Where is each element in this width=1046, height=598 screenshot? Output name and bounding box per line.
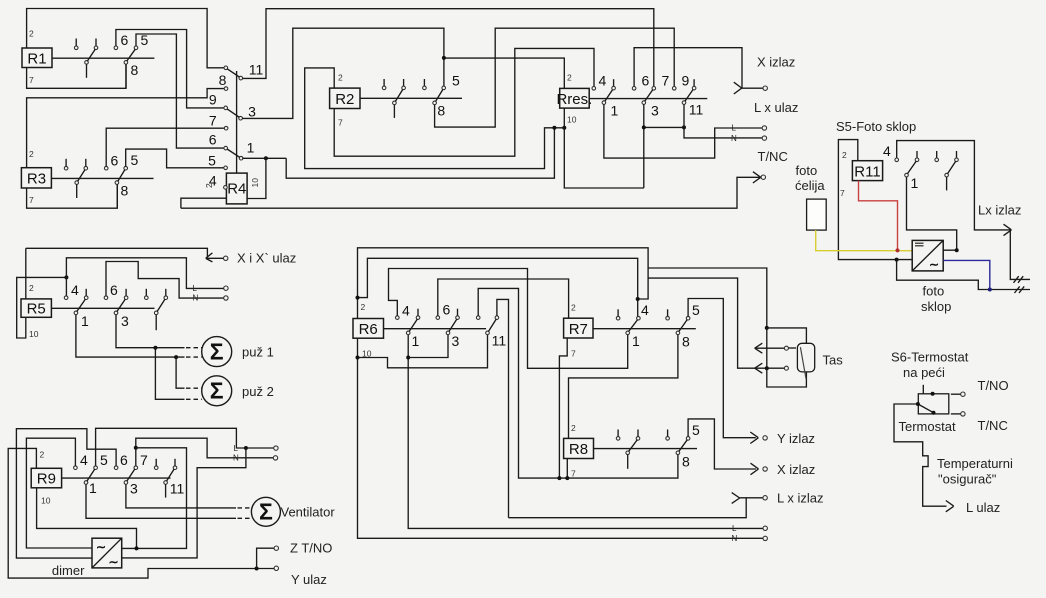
svg-text:3: 3 — [121, 313, 129, 329]
contact terminal Rres 11 tick — [692, 79, 696, 90]
wire termostat feed with temperature fuse to L ulaz — [894, 404, 947, 506]
wire R5 contact 4 to L terminal — [66, 258, 223, 296]
selector terminal 8 — [224, 87, 228, 91]
wire R5 contact rail — [51, 307, 154, 309]
contact pivot R7 1 with blade — [626, 320, 638, 335]
svg-text:Rres.: Rres. — [556, 91, 592, 108]
svg-text:6: 6 — [120, 452, 128, 468]
junction Tas lower — [765, 366, 769, 370]
relay R8 — [564, 438, 594, 458]
svg-text:S6-Termostat: S6-Termostat — [891, 350, 969, 365]
selector terminal 11-left — [224, 66, 228, 70]
junction on selector 1 wire — [264, 156, 268, 160]
contact terminal R8 5 — [686, 437, 690, 441]
svg-text:6: 6 — [642, 73, 650, 89]
svg-text:7: 7 — [140, 452, 148, 468]
wire selector pivot 11 to Rres contact 7 — [242, 9, 654, 87]
svg-text:7: 7 — [571, 469, 576, 479]
contact pivot R5 third with blade and stub — [154, 299, 165, 330]
contact pivot R8 8 with blade — [676, 440, 687, 455]
svg-text:L x izlaz: L x izlaz — [777, 491, 823, 506]
wire R7 pin7 to bottom row — [559, 338, 567, 478]
svg-text:7: 7 — [338, 118, 343, 128]
svg-text:11: 11 — [492, 333, 507, 349]
wire channel branch to Tas lower row — [648, 278, 785, 368]
contact terminal R9 7 — [134, 466, 138, 470]
terminal circle Y izlaz — [763, 436, 767, 440]
svg-text:∼: ∼ — [109, 555, 119, 569]
svg-text:puž 2: puž 2 — [242, 384, 274, 399]
svg-text:8: 8 — [437, 103, 445, 119]
wire Rres pivot3 lead through junctions — [643, 104, 645, 188]
svg-text:8: 8 — [131, 62, 139, 78]
contact terminal R6 blade target c with riser — [495, 316, 499, 320]
junction contact 7 riser — [134, 446, 138, 450]
motor Ventilator — [251, 497, 280, 526]
wire Tas loop under button — [767, 368, 807, 387]
Tas upper row arrow and terminal — [755, 343, 796, 353]
terminal circle L bottom middle — [763, 526, 767, 530]
svg-text:2: 2 — [361, 302, 366, 312]
contact pivot R2 8 with blade — [433, 89, 443, 104]
contact terminal R5 blade target a — [84, 289, 88, 300]
contact terminal R2 unused a — [382, 79, 386, 90]
contact terminal S5 blade tick a — [915, 151, 919, 162]
arrow T/NC — [753, 172, 761, 183]
wire junction down to R4 pin 10 — [247, 158, 266, 198]
terminal circle T/NO — [961, 392, 965, 396]
svg-text:9: 9 — [682, 73, 690, 89]
svg-text:∼: ∼ — [96, 540, 106, 554]
junction Tas upper — [765, 326, 769, 330]
svg-text:T/NC: T/NC — [978, 418, 1008, 433]
contact terminal Rres 7 — [652, 87, 656, 91]
terminal circle L bottom left — [274, 446, 278, 450]
wire Rres pivot11 to N of L x ulaz — [684, 104, 763, 137]
contact terminal R6 blade target a — [416, 309, 420, 320]
svg-text:7: 7 — [571, 349, 576, 359]
svg-text:4: 4 — [883, 143, 891, 159]
svg-text:N: N — [731, 134, 737, 143]
contact terminal R6 6 — [436, 316, 440, 320]
wire R2 contact rail — [360, 97, 462, 99]
svg-text:R2: R2 — [335, 91, 354, 108]
svg-text:1: 1 — [611, 103, 619, 119]
svg-text:1: 1 — [911, 175, 919, 191]
wire R5 pin2 riser to X row — [25, 248, 27, 299]
svg-text:N: N — [193, 294, 199, 303]
wire R2 contact 5 junction to Rres pin 2 — [444, 58, 564, 88]
termostat blade — [918, 404, 934, 413]
svg-text:8: 8 — [219, 72, 227, 88]
selector terminal 6 — [224, 146, 228, 150]
junction pivot11 lead — [682, 125, 686, 129]
svg-text:"osigurač": "osigurač" — [938, 472, 997, 487]
svg-text:5: 5 — [692, 302, 700, 318]
tick marks right terminal lower — [1015, 286, 1025, 293]
wire R2 contact 8 to Rres contact 9 — [435, 28, 675, 127]
svg-text:11: 11 — [689, 102, 704, 118]
contact terminal R1 unused a — [74, 39, 78, 50]
svg-text:5: 5 — [131, 152, 139, 168]
contact terminal R7 5 — [686, 316, 690, 320]
junction R6 pin10 — [356, 356, 360, 360]
wire R8 pin7 to bottom row — [566, 459, 568, 479]
svg-text:11: 11 — [249, 62, 264, 78]
selector terminal 9 — [224, 106, 228, 110]
contact pivot R3 first — [75, 170, 85, 198]
svg-text:2: 2 — [338, 73, 343, 83]
wire selector pivot 3 to R2 contact 5 and Rres pin 2 — [242, 28, 444, 118]
wire R11 pin2 left rail to foto sklop lower input — [838, 140, 912, 260]
wire R1 pin2 to selector contact 11 — [27, 9, 224, 68]
svg-text:10: 10 — [29, 329, 39, 339]
svg-text:R3: R3 — [27, 171, 46, 188]
contact terminal R6 third riser — [476, 316, 480, 320]
contact terminal R3 unused b — [84, 159, 88, 170]
svg-text:R4: R4 — [227, 181, 246, 198]
contact pivot R6 3 with blade — [446, 319, 457, 335]
wire selector pivot 1 to junction — [242, 157, 286, 159]
svg-text:L: L — [732, 124, 737, 133]
yellow wire foto celija to foto sklop — [816, 230, 913, 251]
svg-text:X izlaz: X izlaz — [757, 55, 795, 70]
wire Tas top to button housing — [767, 328, 807, 343]
contact pivot Rres 3 with blade — [642, 90, 653, 105]
svg-text:Lx izlaz: Lx izlaz — [978, 203, 1021, 218]
wire R9 pivot1 to Ventilator lower lead — [86, 484, 236, 518]
dashed lead puz2 upper — [186, 387, 202, 389]
svg-text:R9: R9 — [37, 471, 56, 488]
junction on pivot3 wire — [153, 346, 157, 350]
wire R6 pivot1 to L rail — [408, 335, 763, 529]
svg-text:7: 7 — [840, 188, 845, 198]
dashed lead Ventilator upper — [238, 507, 252, 509]
wire R5 contact 6 to N terminal — [106, 262, 224, 299]
junction on pivot1 wire — [174, 355, 178, 359]
wire link pivot3 to pivot11 leads — [644, 126, 684, 128]
wire Rres pin10 down and to contact 3 lead — [564, 108, 644, 188]
svg-text:2: 2 — [567, 73, 572, 83]
wire R6 pin10 to pivot 11 lead — [358, 335, 488, 368]
wire T/NO stub — [951, 393, 961, 395]
svg-text:Z T/NO: Z T/NO — [290, 541, 332, 556]
arrow L x izlaz — [732, 493, 747, 504]
contact terminal S5 4 — [895, 158, 899, 162]
selector switch central rail — [236, 71, 238, 173]
dashed lead puz1 upper — [186, 347, 202, 349]
wire junction to puz2 upper lead — [176, 357, 184, 388]
svg-text:5: 5 — [100, 452, 108, 468]
wire R5 pivot3 to puz1 upper lead — [116, 315, 185, 348]
wire Rres contact rail — [589, 98, 707, 100]
contact terminal R6 blade target b — [456, 309, 460, 320]
svg-text:8: 8 — [682, 334, 690, 350]
svg-text:2: 2 — [29, 283, 34, 293]
wire R4 pin 2 to long bottom wire — [181, 198, 227, 208]
contact terminal R5 6 — [104, 296, 108, 300]
wire foto sklop lower branch to output rail — [897, 260, 1030, 290]
contact pivot R5 3 with blade — [114, 299, 125, 315]
termostat node left — [916, 402, 920, 406]
wire R5 pivot1 to puz1 lower lead — [76, 315, 185, 357]
wire R6 pin2 channel A to Tas and R7 contact 4 — [358, 248, 649, 319]
contact terminal Rres 4 — [592, 87, 596, 91]
contact terminal R8 tick a — [616, 430, 620, 441]
svg-text:8: 8 — [121, 183, 129, 199]
svg-text:T/NO: T/NO — [978, 378, 1009, 393]
wire junction to puz2 lower lead — [155, 348, 184, 400]
contact terminal R5 blade target d — [164, 289, 168, 300]
contact terminal R1 6 — [114, 30, 224, 108]
junction red on yellow — [896, 248, 900, 252]
arrow L ulaz — [946, 501, 954, 512]
motor puz 2 — [202, 376, 232, 406]
svg-text:Termostat: Termostat — [899, 419, 956, 434]
termostat box — [918, 394, 949, 414]
svg-text:L: L — [193, 284, 198, 293]
svg-text:10: 10 — [250, 178, 260, 188]
wire R9 pin10 to dimer upper output — [37, 488, 137, 549]
termostat node bottom — [932, 411, 936, 415]
relay R11 — [852, 161, 882, 181]
contact pivot R5 1 with blade — [74, 299, 85, 315]
tick marks right terminal upper — [1014, 276, 1024, 283]
junction R2-5 Rres-2 — [442, 56, 446, 60]
contact terminal R6 4 — [396, 316, 400, 320]
Tas button housing — [797, 343, 814, 378]
svg-text:R7: R7 — [569, 321, 588, 338]
wire R9 pivot3 to Ventilator upper lead — [126, 484, 236, 508]
svg-text:2: 2 — [571, 423, 576, 433]
svg-text:Tas: Tas — [823, 353, 844, 368]
contact pivot R7 8 with blade — [676, 320, 687, 335]
svg-text:L x ulaz: L x ulaz — [754, 100, 798, 115]
contact pivot R9 1 with blade — [84, 469, 95, 484]
svg-text:4: 4 — [80, 452, 88, 468]
svg-text:R1: R1 — [27, 51, 46, 68]
svg-text:ćelija: ćelija — [795, 178, 825, 193]
wire R9 pin2 to Y ulaz — [8, 448, 274, 578]
terminal circle L x izlaz — [763, 496, 767, 500]
dimer converter box — [92, 538, 122, 569]
wire R9 contact 5 to L terminal bottom — [96, 428, 275, 466]
svg-text:2: 2 — [29, 149, 34, 159]
contact terminal Rres 9 — [672, 87, 676, 91]
svg-text:Ventilator: Ventilator — [281, 505, 336, 520]
svg-text:1: 1 — [247, 140, 255, 156]
svg-text:X izlaz: X izlaz — [777, 462, 815, 477]
terminal circle N of L x ulaz — [762, 136, 766, 140]
arrow Lx izlaz — [1004, 224, 1012, 235]
wire link R6 pivot1 to pivot3 — [408, 335, 448, 358]
svg-text:R8: R8 — [569, 441, 588, 458]
wire arrow to X terminal — [206, 257, 224, 259]
svg-text:N: N — [732, 534, 738, 543]
svg-text:Σ: Σ — [210, 339, 224, 365]
junction foto sklop upper output — [955, 248, 959, 252]
svg-text:2: 2 — [40, 450, 45, 460]
red wire R11 pin7 to foto sklop input — [859, 181, 898, 250]
wire R6 terminal c to Lx izlaz rail — [497, 299, 509, 517]
svg-text:2: 2 — [29, 29, 34, 39]
foto sklop converter box — [912, 240, 943, 271]
contact terminal S5 tick b — [935, 151, 939, 162]
svg-text:foto: foto — [796, 163, 818, 178]
svg-text:Y ulaz: Y ulaz — [291, 572, 327, 587]
arrow X izlaz — [734, 82, 742, 94]
svg-text:6: 6 — [121, 32, 129, 48]
terminal circle X izlaz — [763, 86, 767, 90]
contact terminal R9 tick a — [154, 459, 158, 470]
svg-text:Y izlaz: Y izlaz — [777, 431, 815, 446]
wire L junction to dimer lower output — [122, 448, 246, 558]
svg-text:8: 8 — [682, 454, 690, 470]
junction dimer upper output — [135, 546, 139, 550]
wire R7 contact rail — [593, 328, 696, 330]
wire R7 contact 8 lead to R8 pin2 — [569, 335, 678, 439]
wire S5 contact 1 lead to foto sklop upper output — [907, 177, 957, 250]
svg-text:2: 2 — [842, 150, 847, 160]
svg-text:3: 3 — [651, 103, 659, 119]
contact terminal R5 blade target b — [124, 289, 128, 300]
termostat top stub — [922, 385, 924, 394]
junction R8 pin7 on row — [565, 476, 569, 480]
dashed lead puz1 lower — [186, 356, 202, 358]
junction blue on black — [988, 288, 992, 292]
wire R9 contact rail — [62, 477, 171, 479]
svg-text:9: 9 — [209, 92, 217, 108]
contact pivot R8 1 with blade and stub — [626, 440, 637, 469]
wire R6 pin10 to N rail — [358, 338, 764, 538]
svg-text:4: 4 — [402, 303, 410, 319]
junction foto sklop lower input — [895, 258, 899, 262]
contact terminal R2 unused b — [423, 79, 427, 90]
contact terminal Rres blade tick — [612, 79, 616, 90]
contact terminal R1 5 — [134, 34, 224, 148]
contact pivot R1 second with blade — [124, 49, 135, 88]
svg-text:dimer: dimer — [52, 563, 85, 578]
svg-text:Σ: Σ — [210, 378, 224, 404]
wire Rres contact 6 to X izlaz — [634, 48, 763, 88]
svg-text:∼: ∼ — [929, 258, 939, 272]
svg-text:11: 11 — [170, 481, 185, 497]
svg-text:foto: foto — [923, 284, 945, 299]
svg-text:4: 4 — [209, 173, 217, 189]
termostat common node top — [931, 392, 935, 396]
wire R6 third terminal to bottom row net E — [478, 288, 678, 478]
relay R5 — [21, 299, 51, 318]
contact terminal R1 unused b — [94, 39, 98, 50]
svg-text:4: 4 — [71, 282, 79, 298]
wire R9 contact 4 to dimer upper input — [26, 438, 92, 548]
wire junction to Z T/NO terminal — [257, 548, 275, 568]
junction Rres pin10 a — [552, 126, 556, 130]
svg-text:7: 7 — [209, 113, 217, 129]
svg-text:N: N — [233, 454, 239, 463]
selector terminal 7 — [224, 126, 228, 130]
contact pivot R2 first — [393, 89, 403, 118]
wire R3 contact rail — [51, 177, 153, 179]
contact terminal R2 5 — [442, 86, 446, 90]
terminal circle L of L x ulaz — [762, 126, 766, 130]
wire R2 pin2 to Rres pin10 net — [305, 68, 565, 169]
junction Rres pin10 b — [562, 126, 566, 130]
arrow Y izlaz — [750, 432, 758, 444]
contact pivot R9 11 with blade and stub — [164, 469, 174, 498]
terminal circle N bottom middle — [763, 536, 767, 540]
contact terminal R8 blade target tick — [636, 430, 640, 441]
wire selector 1 riser to Rres pin10 node — [286, 128, 554, 178]
relay R9 — [31, 468, 61, 488]
wire contact 7 junction to dimer upper output — [122, 448, 186, 549]
contact pivot R6 1 with blade — [406, 319, 417, 335]
contact terminal R9 5 — [94, 466, 98, 470]
svg-text:6: 6 — [111, 153, 119, 169]
wire R6 contact rail — [384, 328, 487, 330]
wire channel B R6 pin2 to R7 contact 4 — [358, 258, 638, 316]
terminal circle X i X ulaz — [224, 256, 228, 260]
contact terminal R3 6 to selector 7 — [104, 128, 224, 170]
svg-text:1: 1 — [412, 333, 420, 349]
junction L row bottom — [244, 446, 248, 450]
selector pivot 3 with blade — [227, 109, 242, 120]
wire R7 pivot1 lead down — [627, 335, 629, 369]
svg-text:4: 4 — [599, 73, 607, 89]
svg-text:na peći: na peći — [903, 365, 945, 380]
svg-text:1: 1 — [89, 480, 97, 496]
wire T/NC stub — [951, 413, 961, 415]
contact pivot S5 second with blade and stub — [945, 161, 956, 190]
wire R1 pin7 loop to contact 8 — [27, 64, 126, 88]
contact pivot Rres 11 with blade — [682, 90, 693, 105]
svg-text:3: 3 — [248, 104, 256, 120]
contact terminal R5 4 — [64, 296, 68, 300]
wire R5 pin2 row to L drop junction — [26, 276, 67, 278]
long wire to T/NC — [181, 177, 761, 208]
relay R1 — [22, 48, 52, 68]
svg-text:Σ: Σ — [259, 499, 273, 525]
wire Tas vertical between rows — [766, 328, 768, 368]
junction R6 pin2 rail — [356, 296, 360, 300]
wire R6 contact 6 to R7 pin2 net D — [438, 279, 569, 318]
contact pivot R1 first — [85, 49, 96, 78]
contact terminal R3 unused a — [64, 159, 68, 170]
wire R9 contact 7 riser — [136, 438, 274, 466]
svg-text:6: 6 — [443, 302, 451, 318]
svg-text:R6: R6 — [359, 321, 378, 338]
junction L drop on pin2 row — [64, 275, 68, 279]
terminal circle Z T/NO — [274, 546, 278, 550]
wire R7 contact 5 to Y izlaz — [688, 299, 756, 438]
svg-text:5: 5 — [208, 153, 216, 169]
terminal circle L left section — [224, 286, 228, 290]
svg-text:4: 4 — [641, 302, 649, 318]
svg-text:10: 10 — [567, 115, 577, 125]
contact terminal R2 blade target a — [402, 79, 406, 90]
wire R1 contact rail — [52, 57, 154, 59]
contact pivot S5 1 with blade — [905, 161, 916, 177]
contact pivot R3 second with blade — [115, 170, 125, 209]
wire R8 contact 5 to X izlaz — [688, 419, 756, 469]
svg-text:T/NC: T/NC — [758, 149, 788, 164]
Tas lower row arrow and terminal — [755, 363, 789, 373]
terminal circle Y ulaz — [274, 566, 278, 570]
wire R9 contact 6 to dimer lower input — [16, 429, 116, 558]
dashed lead Ventilator lower — [238, 517, 252, 519]
wire Rres contact 1 to L x ulaz L — [604, 104, 763, 158]
svg-text:Temperaturni: Temperaturni — [937, 456, 1013, 471]
